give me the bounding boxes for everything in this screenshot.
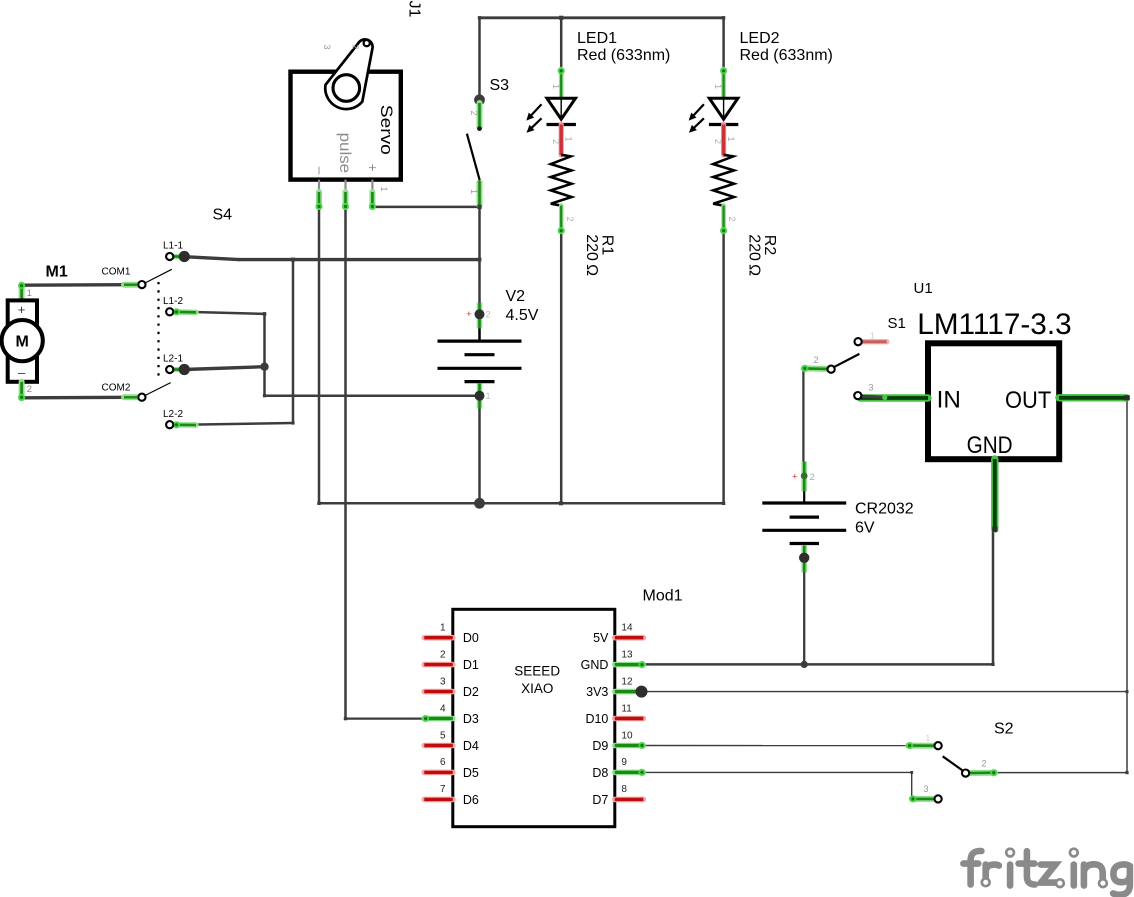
LED LED1 triangle xyxy=(560,98,562,120)
svg-text:12: 12 xyxy=(621,676,633,687)
svg-text:V2: V2 xyxy=(506,288,526,305)
module Mod1 pin 7 D6 xyxy=(424,797,453,803)
switch S4 L2-1 junction dot xyxy=(179,364,190,375)
LED LED1 cathode bar xyxy=(547,123,576,126)
battery CR2032 - terminal xyxy=(801,546,807,573)
module Mod1 pin 14 5V xyxy=(615,635,644,641)
svg-text:220 Ω: 220 Ω xyxy=(583,234,600,276)
wire ground bus (servo- / V2- / R1 / R2) xyxy=(319,502,724,505)
module Mod1 pin 9 D8 (connected) xyxy=(615,770,644,776)
svg-text:2: 2 xyxy=(713,139,723,144)
svg-text:2: 2 xyxy=(565,217,575,222)
regulator U1 IN pin xyxy=(861,394,929,401)
LED LED1 anode pin xyxy=(559,69,564,98)
svg-text:CR2032: CR2032 xyxy=(855,500,914,517)
module Mod1 pin 8 D7 xyxy=(615,797,644,803)
svg-text:D0: D0 xyxy=(463,631,479,645)
switch S4 terminal COM2 + blade xyxy=(144,383,171,396)
svg-text:L1-1: L1-1 xyxy=(163,241,183,252)
svg-text:1: 1 xyxy=(870,331,875,341)
svg-text:3: 3 xyxy=(440,676,446,687)
wire M1 pin1 to S4 COM1 xyxy=(22,283,142,287)
svg-text:S4: S4 xyxy=(213,207,233,224)
servo pin - (1) xyxy=(318,180,320,198)
wire S4 vertical to battery V2 - terminal xyxy=(265,394,480,397)
switch S4 terminal COM1 + blade xyxy=(144,269,172,283)
switch S4 L1-1 junction dot xyxy=(179,251,190,262)
regulator U1 GND pin xyxy=(991,459,998,529)
svg-text:D8: D8 xyxy=(592,766,608,780)
LED LED2 cathode bar xyxy=(709,123,738,126)
svg-text:LED2: LED2 xyxy=(740,30,780,47)
wire R2 bottom to ground bus xyxy=(722,232,725,504)
wire top bus (S3 to LED2 anodes) xyxy=(480,16,724,19)
regulator U1 OUT pin xyxy=(1059,394,1127,401)
junction V2- on ground bus xyxy=(474,498,485,509)
module Mod1 pin 11 D10 xyxy=(615,716,644,722)
switch S3 pin 1 xyxy=(477,181,483,207)
svg-text:GND: GND xyxy=(967,432,1013,459)
wire S3 pin2 to top bus xyxy=(478,18,481,96)
LED LED2 light arrows xyxy=(693,104,704,116)
module Mod1 pin 6 D5 xyxy=(424,770,453,776)
module Mod1 body xyxy=(453,609,615,826)
svg-text:Mod1: Mod1 xyxy=(643,588,683,605)
wire S4 L2-1 to same vertical xyxy=(184,367,264,370)
svg-text:9: 9 xyxy=(621,757,627,768)
switch S4 terminal L2-2 xyxy=(174,422,196,428)
module Mod1 3V3 junction dot xyxy=(636,686,648,698)
svg-text:M: M xyxy=(16,334,29,351)
svg-text:1: 1 xyxy=(726,137,736,142)
svg-text:D6: D6 xyxy=(463,793,479,807)
svg-text:1: 1 xyxy=(27,288,32,299)
battery CR2032 stub and plates xyxy=(803,492,805,504)
svg-text:1: 1 xyxy=(926,733,931,743)
LED LED2 anode pin xyxy=(721,69,726,98)
wire R1 bottom to ground bus xyxy=(560,232,563,504)
LED LED1 light arrows xyxy=(530,104,541,116)
svg-text:2: 2 xyxy=(486,310,491,320)
svg-text:D7: D7 xyxy=(592,793,608,807)
servo pin + with number 1 xyxy=(371,180,373,198)
battery V2 - terminal xyxy=(477,384,483,409)
svg-text:D5: D5 xyxy=(463,766,479,780)
svg-text:3: 3 xyxy=(924,784,929,794)
svg-text:+: + xyxy=(18,302,26,317)
svg-text:D4: D4 xyxy=(463,739,479,753)
wire XIAO D8 to S2 pin3 corner xyxy=(643,771,911,773)
module Mod1 pin 10 D9 (connected) xyxy=(615,743,644,749)
servo J1 horn xyxy=(325,39,372,109)
svg-text:6V: 6V xyxy=(855,520,875,537)
switch S2 pin2 xyxy=(970,770,995,776)
svg-text:+: + xyxy=(365,164,380,172)
svg-text:1: 1 xyxy=(551,84,561,89)
svg-text:2: 2 xyxy=(351,45,361,50)
svg-text:Red (633nm): Red (633nm) xyxy=(740,47,833,64)
svg-text:IN: IN xyxy=(937,386,961,413)
svg-text:4: 4 xyxy=(440,703,446,714)
svg-text:S3: S3 xyxy=(490,77,510,94)
fritzing logo xyxy=(963,849,1130,895)
green glow on COM2 wire xyxy=(124,394,137,400)
wire S4 L2-2 to branch corner xyxy=(184,423,293,425)
switch S3 junction dot xyxy=(474,94,485,105)
LED LED1 cathode red wire xyxy=(559,125,564,155)
svg-text:2: 2 xyxy=(551,139,561,144)
svg-text:1: 1 xyxy=(486,391,491,401)
wire CR2032 - down to GND net xyxy=(803,573,805,665)
svg-text:2: 2 xyxy=(727,217,737,222)
svg-text:2: 2 xyxy=(982,759,987,769)
svg-text:D3: D3 xyxy=(463,712,479,726)
svg-text:2: 2 xyxy=(469,111,479,116)
svg-text:4.5V: 4.5V xyxy=(506,307,539,324)
svg-text:1: 1 xyxy=(440,623,446,634)
svg-text:L2-1: L2-1 xyxy=(163,354,183,365)
wire S4 L1-1 to V2 + vertical xyxy=(189,257,239,260)
svg-text:L2-2: L2-2 xyxy=(163,409,183,420)
svg-text:D1: D1 xyxy=(463,658,479,672)
svg-text:1: 1 xyxy=(469,189,479,194)
battery V2 + terminal xyxy=(477,303,483,329)
module Mod1 pin 12 3V3 (connected) xyxy=(615,689,644,695)
svg-text:2: 2 xyxy=(810,472,815,483)
module Mod1 pin 1 D0 xyxy=(424,635,453,641)
svg-text:LM1117-3.3: LM1117-3.3 xyxy=(917,308,1071,341)
wire XIAO 3V3 to right column xyxy=(642,691,1128,693)
wire S4 L1-2 right then down xyxy=(184,312,264,314)
svg-text:11: 11 xyxy=(621,703,632,714)
motor M1 body xyxy=(8,300,37,381)
wire XIAO D9 to S2 pin1 xyxy=(643,745,908,747)
switch S3 pin 2 xyxy=(477,103,483,128)
module Mod1 pin 5 D4 xyxy=(424,743,453,749)
switch S4 dotted gang link xyxy=(157,282,159,378)
svg-text:3V3: 3V3 xyxy=(586,685,608,699)
svg-text:8: 8 xyxy=(621,784,627,795)
resistor R1 pin 2 xyxy=(559,206,564,232)
svg-text:pulse: pulse xyxy=(336,133,353,174)
svg-text:3: 3 xyxy=(869,383,874,393)
module Mod1 pin 3 D2 xyxy=(424,689,453,695)
svg-text:J1: J1 xyxy=(406,1,423,18)
wire pulse corner to XIAO D3 xyxy=(346,717,425,719)
svg-text:13: 13 xyxy=(621,649,633,660)
svg-text:1: 1 xyxy=(713,84,723,89)
switch S2 pin3 xyxy=(912,796,934,802)
svg-text:GND: GND xyxy=(581,658,609,672)
switch S2 pin1 xyxy=(908,743,933,749)
wire L1-1 branch down to L2-2 xyxy=(292,260,295,423)
svg-text:COM2: COM2 xyxy=(102,382,131,393)
svg-text:10: 10 xyxy=(621,730,633,741)
junction L1-2/L2-1 node xyxy=(260,363,268,371)
svg-text:D2: D2 xyxy=(463,685,479,699)
svg-text:XIAO: XIAO xyxy=(521,681,553,696)
green glow on COM1 wire xyxy=(124,282,137,288)
svg-text:–: – xyxy=(313,167,328,175)
svg-text:SEEED: SEEED xyxy=(514,664,560,679)
switch S3 blade xyxy=(467,134,480,181)
svg-text:L1-2: L1-2 xyxy=(163,296,183,307)
switch S4 terminal L1-1 xyxy=(174,254,180,259)
wire S3/servo node down to battery V2 + xyxy=(478,207,481,342)
wire S2 pin2 to right column xyxy=(995,772,1127,774)
motor M1 pin 1 xyxy=(19,285,25,301)
module Mod1 pin 13 GND (connected) xyxy=(615,662,644,668)
svg-text:1: 1 xyxy=(564,137,574,142)
wire servo + pin to S3 pin1 node xyxy=(372,206,479,209)
resistor R1 zigzag xyxy=(551,155,572,206)
svg-text:M1: M1 xyxy=(46,264,68,281)
svg-text:U1: U1 xyxy=(914,280,933,297)
wire XIAO GND to U1 GND net xyxy=(643,663,993,666)
switch S4 terminal L1-2 xyxy=(174,309,196,315)
motor M1 pin 2 xyxy=(19,382,25,398)
svg-text:2: 2 xyxy=(814,355,819,365)
wire S1 pin2 down to CR2032 + xyxy=(802,368,804,465)
switch S1 pin3 + wire to U1 IN xyxy=(859,396,888,398)
switch S2 blade xyxy=(943,756,964,771)
LED LED2 triangle xyxy=(723,98,725,120)
wire LED1 anode to top bus xyxy=(560,18,563,70)
servo J1 body xyxy=(291,72,401,180)
svg-text:–: – xyxy=(18,365,26,380)
wire servo - pin down to ground bus xyxy=(318,207,321,503)
svg-text:7: 7 xyxy=(440,784,446,795)
LED LED2 cathode red wire xyxy=(721,125,726,155)
svg-text:Servo: Servo xyxy=(377,105,395,155)
svg-text:Red (633nm): Red (633nm) xyxy=(577,47,670,64)
svg-text:3: 3 xyxy=(322,45,332,50)
wire LED2 anode to top bus xyxy=(722,18,725,70)
svg-text:OUT: OUT xyxy=(1005,387,1051,414)
switch S1 pin2 xyxy=(804,365,828,372)
svg-text:2: 2 xyxy=(440,649,446,660)
regulator U1 body xyxy=(928,343,1059,459)
svg-text:5: 5 xyxy=(440,730,446,741)
resistor R2 zigzag xyxy=(713,155,734,206)
svg-text:LED1: LED1 xyxy=(577,30,617,47)
wire V2 - down to ground bus xyxy=(478,396,481,503)
svg-text:5V: 5V xyxy=(593,631,609,645)
svg-text:D10: D10 xyxy=(585,712,608,726)
module Mod1 pin 2 D1 xyxy=(424,662,453,668)
junction CR2032 on GND net xyxy=(801,661,808,668)
junction S4 L1-1 branch xyxy=(291,258,295,262)
svg-text:COM1: COM1 xyxy=(102,267,131,278)
svg-text:14: 14 xyxy=(621,623,633,634)
svg-text:S1: S1 xyxy=(888,315,906,332)
switch S1 blade xyxy=(834,354,860,367)
wire M1 pin2 to S4 COM2 xyxy=(22,396,142,400)
switch S1 pin1 red stub xyxy=(861,339,887,344)
svg-text:2: 2 xyxy=(27,384,32,395)
svg-text:1: 1 xyxy=(379,187,389,192)
svg-text:6: 6 xyxy=(440,757,446,768)
svg-text:+: + xyxy=(792,472,798,483)
module Mod1 pin 4 D3 (connected) xyxy=(424,716,453,722)
wire servo pulse pin down to D3 row xyxy=(344,207,347,719)
battery V2 stub + plates xyxy=(478,329,480,342)
svg-text:220 Ω: 220 Ω xyxy=(746,234,763,276)
servo pin pulse xyxy=(344,180,346,198)
svg-text:+: + xyxy=(466,309,471,319)
svg-text:D9: D9 xyxy=(592,739,608,753)
svg-text:S2: S2 xyxy=(994,721,1014,738)
battery CR2032 + terminal xyxy=(801,462,807,492)
resistor R2 pin 2 xyxy=(721,206,726,232)
switch S4 terminal L2-1 xyxy=(174,367,180,372)
wire right column U1 OUT down to S2 xyxy=(1126,398,1128,773)
